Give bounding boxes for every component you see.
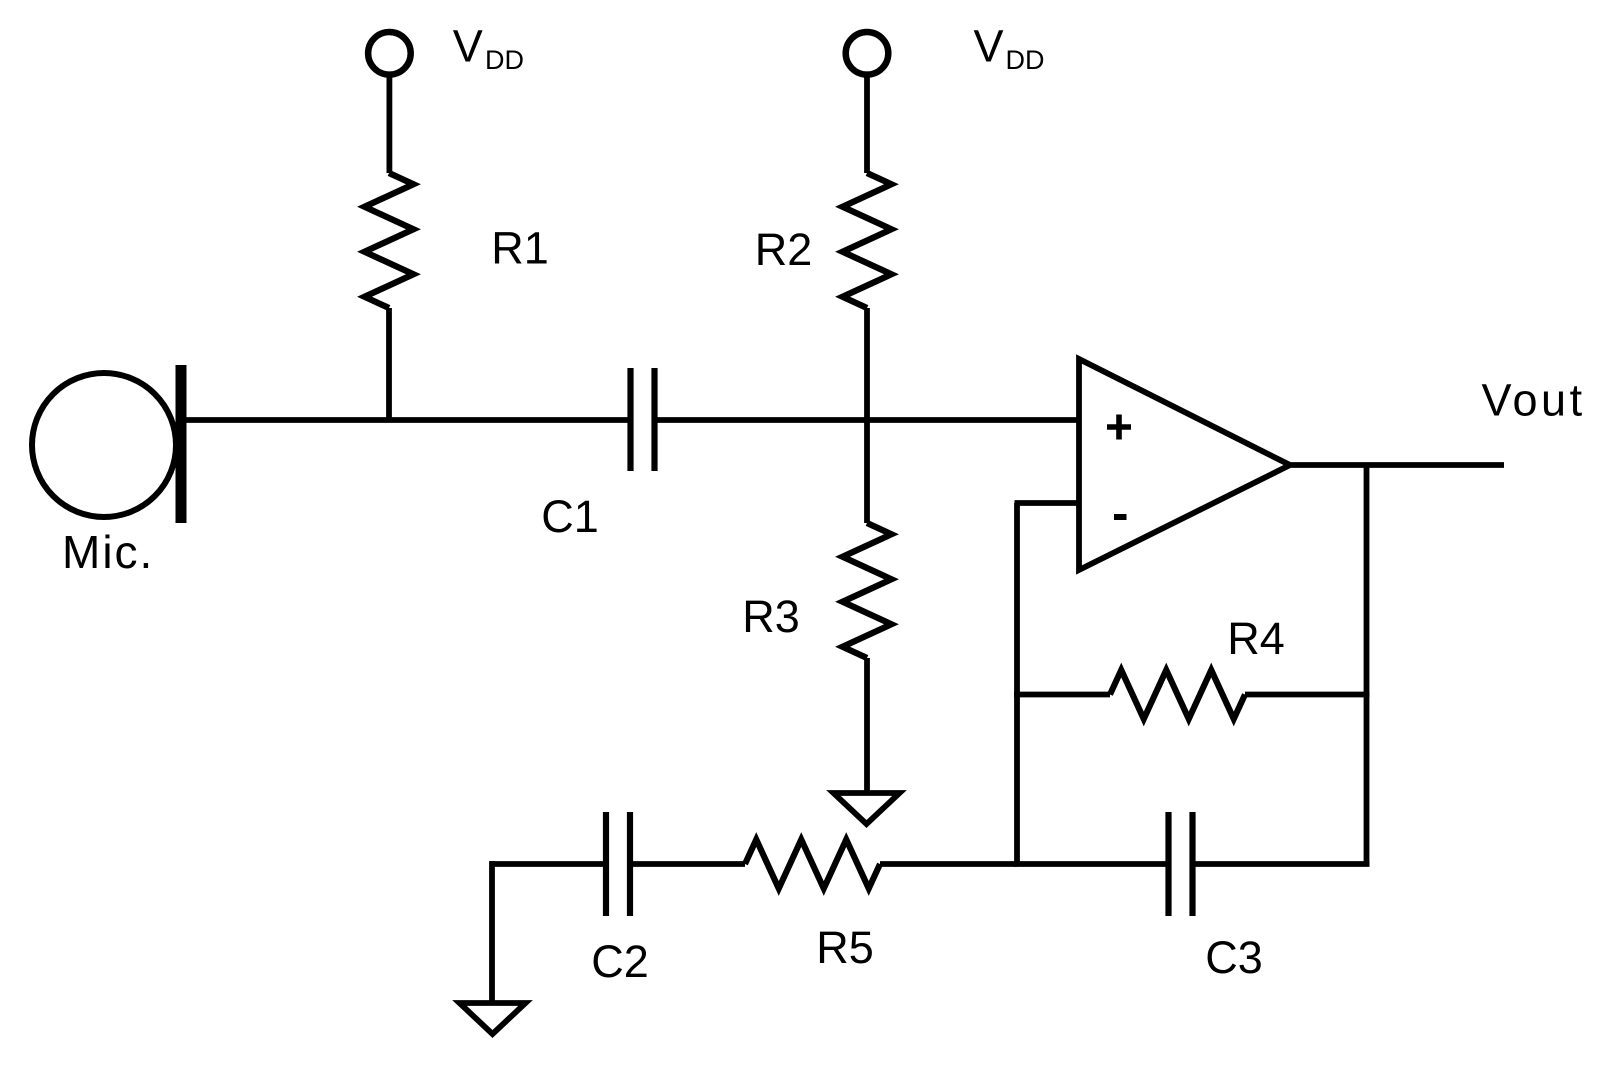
svg-text:DD: DD — [1006, 45, 1045, 75]
svg-text:Mic.: Mic. — [62, 526, 154, 578]
svg-text:C1: C1 — [541, 491, 599, 542]
svg-text:R2: R2 — [755, 224, 813, 275]
svg-text:Vout: Vout — [1482, 375, 1586, 426]
svg-text:V: V — [974, 21, 1004, 72]
svg-text:R4: R4 — [1227, 613, 1285, 664]
svg-text:R5: R5 — [816, 922, 874, 973]
svg-text:R1: R1 — [491, 223, 549, 274]
svg-text:C2: C2 — [591, 936, 649, 987]
svg-text:DD: DD — [485, 45, 524, 75]
svg-text:R3: R3 — [742, 591, 800, 642]
svg-text:C3: C3 — [1205, 932, 1263, 983]
svg-text:V: V — [453, 21, 483, 72]
